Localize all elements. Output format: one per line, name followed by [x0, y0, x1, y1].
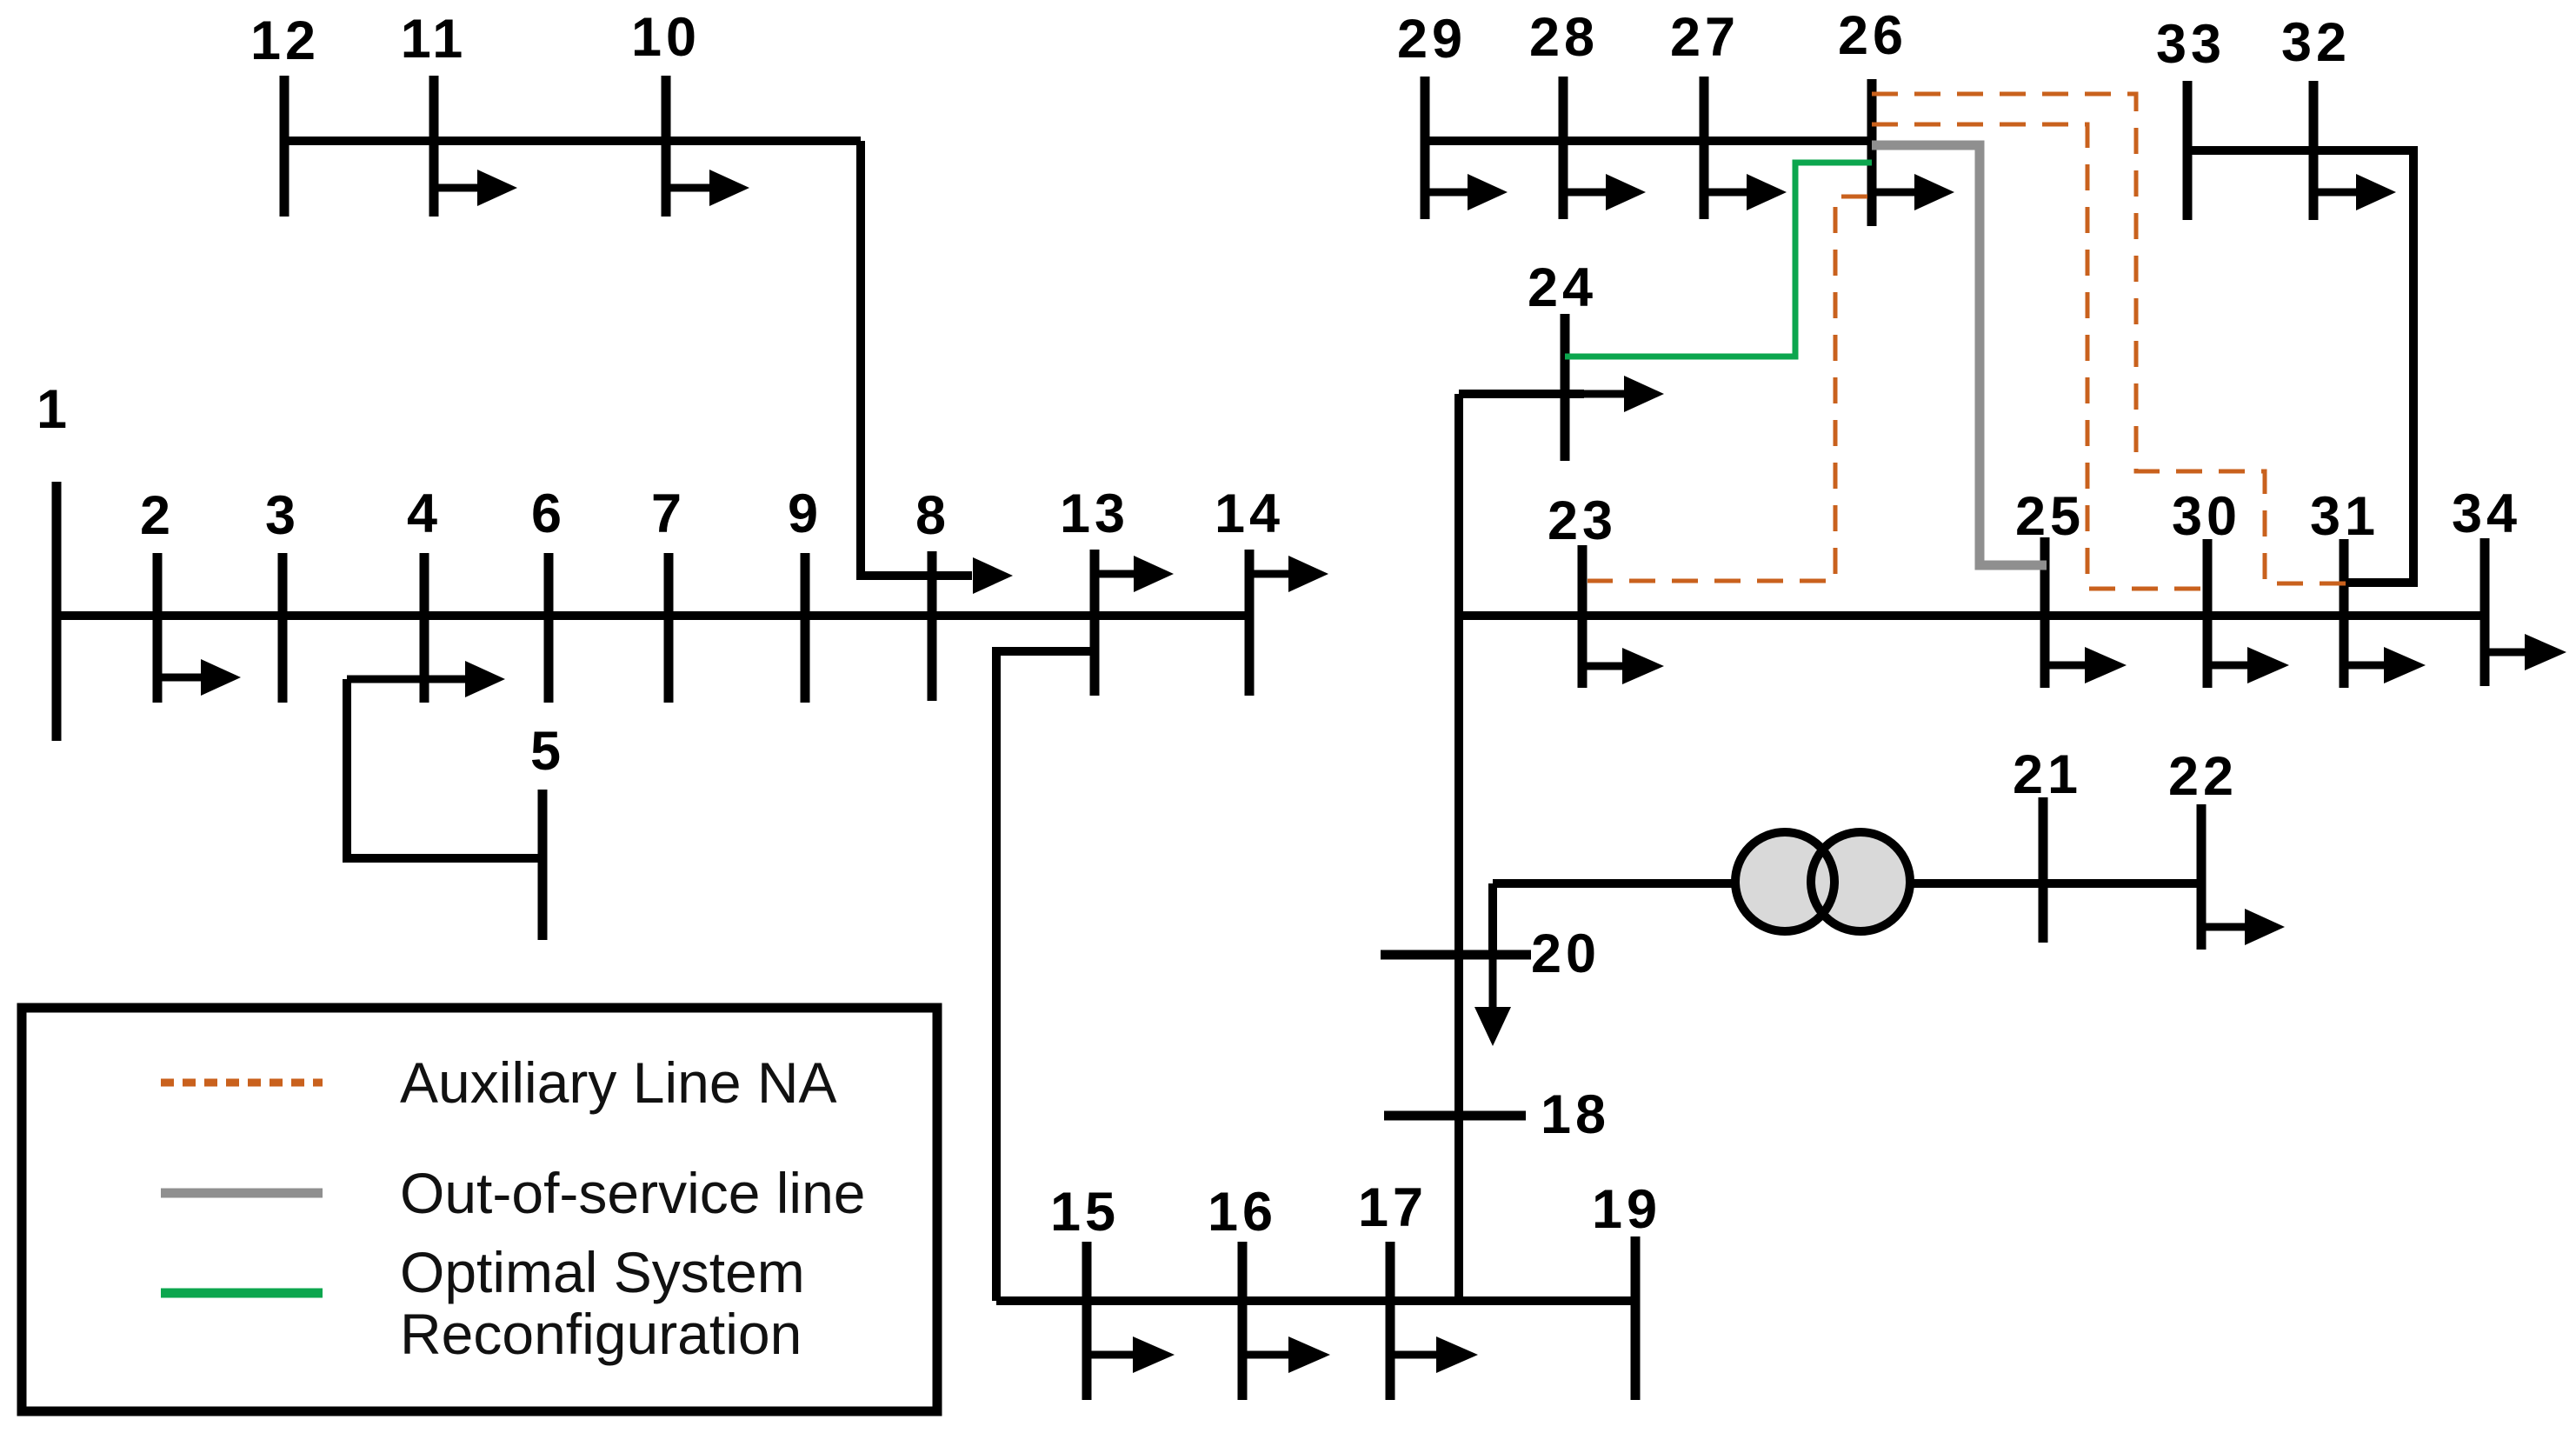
bus 4 — [407, 483, 442, 703]
svg-text:18: 18 — [1541, 1084, 1610, 1145]
bus 34 — [2452, 483, 2521, 686]
wire feeder 29-26 — [1425, 137, 1872, 145]
svg-text:Auxiliary Line NA: Auxiliary Line NA — [400, 1050, 837, 1115]
wire main feeder 1-14 — [52, 611, 1249, 620]
svg-text:11: 11 — [401, 9, 468, 70]
load arrow bus 25 — [2045, 647, 2127, 683]
load arrow bus 2 — [157, 659, 241, 696]
load arrow bus 24 — [1584, 376, 1664, 412]
svg-text:16: 16 — [1208, 1182, 1277, 1243]
bus 28 — [1529, 7, 1599, 219]
bus 3 — [265, 485, 300, 703]
bus 21 — [2013, 744, 2082, 943]
bus 2 — [140, 485, 175, 703]
load arrow bus 32 — [2313, 174, 2396, 210]
bus 17 — [1358, 1177, 1428, 1400]
load arrow bus 11 — [434, 170, 517, 206]
svg-text:4: 4 — [407, 483, 442, 544]
svg-text:34: 34 — [2452, 483, 2521, 544]
svg-text:8: 8 — [915, 485, 950, 546]
bus 10 — [631, 7, 701, 217]
svg-text:Optimal System: Optimal System — [400, 1240, 805, 1304]
legend box — [22, 1008, 937, 1411]
bus 14 — [1215, 483, 1284, 696]
wire bottom feeder 15-19 — [996, 1296, 1635, 1305]
bus 15 — [1050, 1182, 1120, 1400]
svg-text:12: 12 — [250, 10, 320, 71]
bus 25 — [2015, 486, 2085, 688]
load arrow bus 16 — [1242, 1336, 1330, 1373]
svg-text:1: 1 — [37, 379, 71, 440]
svg-text:10: 10 — [631, 7, 701, 68]
bus 1 — [37, 379, 71, 741]
svg-text:26: 26 — [1838, 5, 1907, 66]
svg-text:7: 7 — [651, 483, 686, 544]
svg-text:25: 25 — [2015, 486, 2085, 547]
auxiliary tie line 26-30 (dashed) — [1872, 124, 2205, 589]
bus 9 — [788, 483, 822, 703]
svg-text:22: 22 — [2168, 746, 2238, 807]
svg-text:5: 5 — [530, 721, 565, 782]
bus 13 — [1060, 483, 1129, 696]
wire 24 inlet — [1459, 390, 1584, 398]
load arrow bus 14 — [1249, 556, 1328, 592]
load arrow bus 30 — [2207, 647, 2289, 683]
svg-text:6: 6 — [531, 483, 566, 544]
wire main vertical feeder 24-17 — [1454, 394, 1463, 1301]
svg-text:14: 14 — [1215, 483, 1284, 544]
svg-text:30: 30 — [2172, 486, 2241, 547]
load arrow bus 22 — [2201, 909, 2285, 945]
svg-text:33: 33 — [2156, 14, 2226, 75]
load arrow bus 8 — [973, 557, 1013, 594]
load arrow bus 27 — [1704, 174, 1787, 210]
legend out-of-service sample — [161, 1189, 323, 1198]
bus 20 — [1381, 923, 1601, 984]
load arrow bus 31 — [2344, 647, 2426, 683]
svg-text:15: 15 — [1050, 1182, 1120, 1243]
load arrow bus 28 — [1563, 174, 1646, 210]
svg-text:31: 31 — [2310, 486, 2380, 547]
svg-text:9: 9 — [788, 483, 822, 544]
bus 32 — [2281, 12, 2351, 220]
svg-text:3: 3 — [265, 485, 300, 546]
bus 5 — [530, 721, 565, 940]
svg-text:13: 13 — [1060, 483, 1129, 544]
load arrow bus 10 — [666, 170, 749, 206]
bus 16 — [1208, 1182, 1277, 1400]
optimal reconfiguration line 24-26 (green) — [1565, 163, 1872, 357]
svg-text:Out-of-service line: Out-of-service line — [400, 1161, 866, 1225]
load arrow bus 4 — [347, 661, 505, 697]
bus 6 — [531, 483, 566, 703]
svg-text:19: 19 — [1592, 1179, 1661, 1240]
bus 30 — [2172, 486, 2241, 688]
bus 22 — [2168, 746, 2238, 950]
load arrow bus 34 — [2485, 634, 2566, 670]
load arrow bus 13 — [1095, 556, 1174, 592]
bus 26 — [1838, 5, 1907, 226]
legend auxiliary dashed sample — [161, 1079, 323, 1087]
bus 12 — [250, 10, 320, 217]
load arrow bus 17 — [1390, 1336, 1478, 1373]
svg-text:24: 24 — [1528, 257, 1597, 318]
wire transformer line 20-22 — [1493, 879, 2201, 888]
bus 23 — [1548, 490, 1617, 688]
load arrow bus 15 — [1087, 1336, 1175, 1373]
load arrow bus 23 — [1582, 648, 1664, 684]
wire feeder 33-32-31 — [2187, 150, 2413, 583]
wire feeder 12-10 — [284, 137, 861, 145]
bus 8 — [915, 485, 950, 701]
bus 19 — [1592, 1179, 1661, 1400]
wire 13-15 drop — [996, 651, 1095, 1301]
wire 20-transformer riser — [1488, 883, 1497, 955]
svg-text:20: 20 — [1531, 923, 1601, 984]
bus 31 — [2310, 486, 2380, 688]
load arrow bus 26 — [1872, 174, 1954, 210]
svg-text:21: 21 — [2013, 744, 2082, 805]
bus 29 — [1397, 9, 1467, 219]
bus 24 — [1528, 257, 1597, 461]
legend optimal reconfiguration sample — [161, 1289, 323, 1298]
auxiliary tie line 23-26 (dashed) — [1588, 197, 1867, 581]
wire main feeder 23-34 — [1459, 611, 2485, 620]
wire 4-5 branch — [347, 679, 542, 858]
load arrow bus 29 — [1425, 174, 1508, 210]
auxiliary tie line 26-31 (dashed) — [1872, 94, 2346, 583]
bus 27 — [1670, 7, 1740, 219]
svg-text:17: 17 — [1358, 1177, 1428, 1238]
bus 7 — [651, 483, 686, 703]
svg-text:28: 28 — [1529, 7, 1599, 68]
bus 18 — [1384, 1084, 1610, 1145]
transformer T1 — [1735, 832, 1910, 931]
svg-text:Reconfiguration: Reconfiguration — [400, 1302, 802, 1366]
out-of-service line 26-25 (gray) — [1872, 145, 2047, 565]
bus 33 — [2156, 14, 2226, 220]
wire feeder 10-8 drop — [861, 141, 972, 576]
svg-text:2: 2 — [140, 485, 175, 546]
load arrow bus 20 — [1474, 955, 1511, 1046]
svg-text:29: 29 — [1397, 9, 1467, 70]
bus 11 — [401, 9, 468, 217]
svg-text:27: 27 — [1670, 7, 1740, 68]
svg-text:23: 23 — [1548, 490, 1617, 551]
svg-text:32: 32 — [2281, 12, 2351, 73]
